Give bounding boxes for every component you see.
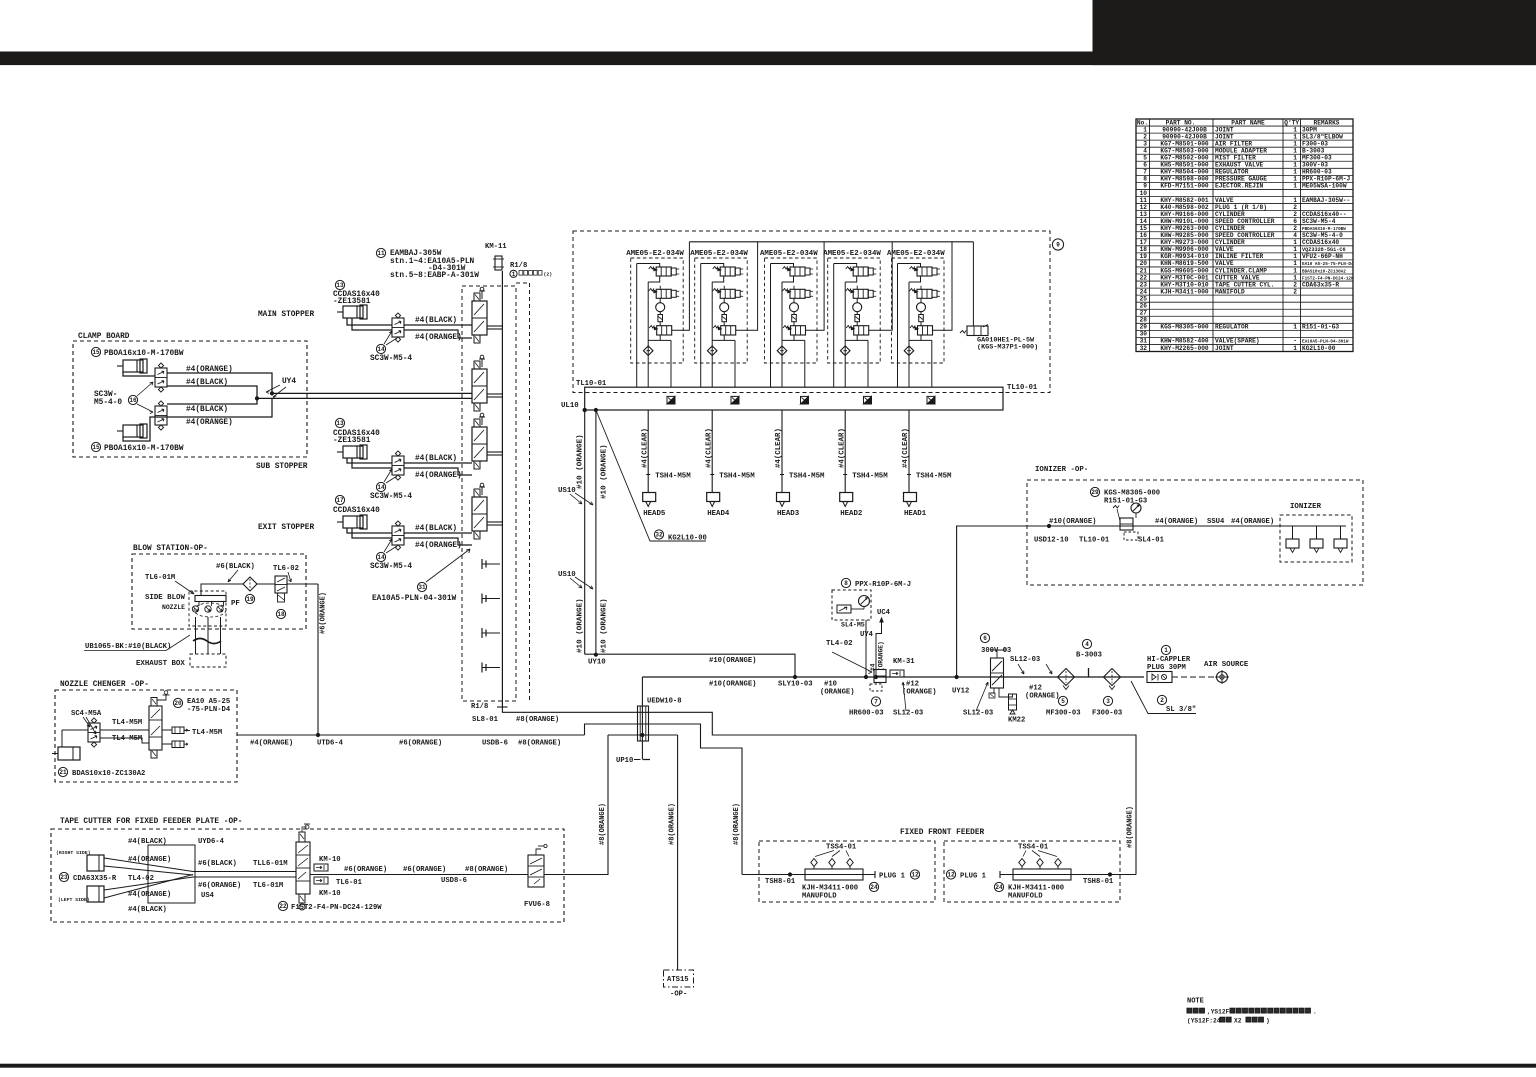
svg-text:4: 4 bbox=[1085, 641, 1089, 648]
svg-text:1: 1 bbox=[1293, 155, 1297, 162]
svg-text:#12: #12 bbox=[906, 681, 919, 689]
stopper valve manifold dashed boxes bbox=[462, 283, 530, 702]
svg-text:TL4-M5M: TL4-M5M bbox=[112, 735, 142, 743]
svg-text:22: 22 bbox=[1140, 274, 1148, 281]
svg-text:VALVE(SPARE): VALVE(SPARE) bbox=[1215, 338, 1260, 345]
svg-text:SSU4: SSU4 bbox=[1207, 518, 1225, 526]
svg-text:SL3/8"ELBOW: SL3/8"ELBOW bbox=[1302, 133, 1343, 140]
svg-text:#4(BLACK): #4(BLACK) bbox=[415, 455, 457, 463]
svg-text:EA10 A5-25: EA10 A5-25 bbox=[187, 698, 230, 706]
svg-text:8: 8 bbox=[844, 580, 848, 587]
svg-text:PF: PF bbox=[231, 600, 240, 608]
label SL4-M5 bbox=[841, 622, 865, 629]
labels #10 ORANGE upper bbox=[577, 434, 609, 499]
svg-text:#10 (ORANGE): #10 (ORANGE) bbox=[601, 444, 609, 499]
ionizer op box bbox=[1027, 466, 1363, 585]
svg-text:15: 15 bbox=[1140, 225, 1148, 232]
svg-text:(ORANGE): (ORANGE) bbox=[1025, 693, 1060, 701]
bottom rule line bbox=[0, 1064, 1536, 1067]
label UL10 bbox=[561, 402, 586, 412]
svg-text:#4(BLACK): #4(BLACK) bbox=[415, 525, 457, 533]
svg-text:10: 10 bbox=[1140, 190, 1148, 197]
svg-text:#6(ORANGE): #6(ORANGE) bbox=[320, 592, 328, 634]
head line HEAD2 bbox=[838, 410, 888, 518]
svg-text:SC3W-M5-4-0: SC3W-M5-4-0 bbox=[1302, 232, 1343, 239]
svg-text:#8(ORANGE): #8(ORANGE) bbox=[1127, 806, 1135, 848]
svg-text:#10(ORANGE): #10(ORANGE) bbox=[709, 681, 756, 689]
svg-text:#4(ORANGE): #4(ORANGE) bbox=[128, 856, 171, 864]
joint 1 HI-CAPPLER bbox=[1147, 645, 1191, 682]
label FIXED FRONT FEEDER bbox=[900, 829, 985, 837]
svg-text:B-3003: B-3003 bbox=[1302, 147, 1325, 154]
labels #10 ORANGE lower bbox=[577, 598, 609, 653]
label 14 SC3W-M5-4 main bbox=[370, 331, 412, 363]
svg-text:12: 12 bbox=[947, 872, 955, 879]
svg-text:29: 29 bbox=[1140, 324, 1148, 331]
svg-text:6: 6 bbox=[1143, 162, 1147, 169]
label 31 EA10A5-PLN bbox=[372, 549, 470, 603]
svg-text:IONIZER: IONIZER bbox=[1290, 503, 1322, 511]
svg-text:TSH4-M5M: TSH4-M5M bbox=[789, 473, 825, 481]
svg-text:7: 7 bbox=[1143, 169, 1147, 176]
svg-text:BLOW STATION-OP-: BLOW STATION-OP- bbox=[133, 545, 208, 553]
svg-text:MIST FILTER: MIST FILTER bbox=[1215, 155, 1256, 162]
svg-text:#4(BLACK): #4(BLACK) bbox=[128, 906, 167, 914]
svg-text:REMARKS: REMARKS bbox=[1314, 120, 1340, 127]
svg-text:1: 1 bbox=[1293, 197, 1297, 204]
svg-text:1: 1 bbox=[1293, 126, 1297, 133]
wire UEDW riser bbox=[641, 677, 643, 759]
svg-text:28: 28 bbox=[1140, 317, 1148, 324]
parts list table bbox=[1136, 119, 1354, 352]
svg-text:HEAD3: HEAD3 bbox=[777, 510, 800, 518]
clamp line labels bbox=[186, 366, 233, 427]
box ATS15 bbox=[664, 970, 694, 999]
svg-text:TL6-02: TL6-02 bbox=[273, 565, 299, 573]
svg-text:CDA63X35-R: CDA63X35-R bbox=[73, 875, 117, 883]
leader #6BLACK bbox=[228, 570, 238, 582]
label US10 lower bbox=[558, 571, 593, 589]
valve 20 nozzle chenger bbox=[149, 691, 170, 758]
svg-text:23: 23 bbox=[60, 874, 68, 881]
main stopper wires bbox=[347, 318, 472, 338]
svg-text:27: 27 bbox=[1140, 310, 1148, 317]
svg-text:IONIZER -OP-: IONIZER -OP- bbox=[1035, 466, 1088, 474]
svg-text:24: 24 bbox=[870, 884, 878, 891]
svg-text:BDAS10x10-ZC130A2: BDAS10x10-ZC130A2 bbox=[1302, 269, 1346, 274]
svg-text:REGULATOR: REGULATOR bbox=[1215, 169, 1249, 176]
wire tape cutter riser bbox=[564, 735, 608, 875]
svg-text:ATS15: ATS15 bbox=[667, 976, 689, 984]
svg-text:K40-M8598-002: K40-M8598-002 bbox=[1160, 204, 1209, 211]
label R1/8 bottom bbox=[471, 703, 488, 711]
wire UY12 riser bbox=[957, 526, 1280, 677]
svg-text:TL4-M5M: TL4-M5M bbox=[192, 729, 222, 737]
svg-text:NOTE: NOTE bbox=[1187, 998, 1204, 1006]
svg-text:EXHAUST VALVE: EXHAUST VALVE bbox=[1215, 162, 1264, 169]
label 14 SC3W-M5-4 exit bbox=[370, 539, 412, 571]
label #8(ORANGE) SL8 bbox=[516, 716, 559, 724]
blow wire bbox=[201, 584, 318, 596]
main stopper labels bbox=[415, 317, 462, 342]
svg-text:SIDE BLOW: SIDE BLOW bbox=[145, 594, 185, 602]
svg-text:#6(ORANGE): #6(ORANGE) bbox=[403, 866, 446, 874]
svg-text:KGS-M8305-000: KGS-M8305-000 bbox=[1104, 490, 1160, 498]
speed controller 14 sub bbox=[392, 451, 404, 480]
svg-text:AME05-E2-034W: AME05-E2-034W bbox=[760, 250, 818, 258]
svg-text:UY4: UY4 bbox=[282, 378, 296, 386]
svg-text:13: 13 bbox=[1140, 211, 1148, 218]
svg-text:US10: US10 bbox=[558, 487, 576, 495]
svg-text:1: 1 bbox=[1293, 147, 1297, 154]
column supply rail bbox=[497, 271, 508, 707]
ionizer feed wire bbox=[1027, 524, 1280, 527]
label SL8-01 bbox=[472, 716, 499, 724]
plug fitting P3 bbox=[482, 628, 500, 638]
svg-text:7: 7 bbox=[874, 699, 878, 706]
svg-text:TSH4-M5M: TSH4-M5M bbox=[852, 473, 888, 481]
svg-text:EAMBAJ-305W--: EAMBAJ-305W-- bbox=[1302, 197, 1350, 204]
svg-text:(LEFT SIDE): (LEFT SIDE) bbox=[58, 897, 90, 903]
svg-text:MANUFOLD: MANUFOLD bbox=[1008, 893, 1043, 901]
label R1/8 top bbox=[510, 262, 552, 278]
svg-text:SL 3/8": SL 3/8" bbox=[1166, 706, 1196, 714]
speed controller SC4 bbox=[88, 718, 100, 747]
leader TL6-01M bbox=[175, 581, 194, 594]
svg-text:15: 15 bbox=[92, 349, 100, 356]
note text bbox=[1187, 998, 1317, 1025]
svg-text:2: 2 bbox=[1293, 211, 1297, 218]
svg-text:F300-03: F300-03 bbox=[1302, 140, 1328, 147]
svg-text:JOINT: JOINT bbox=[1215, 133, 1234, 140]
svg-text:#4(BLACK): #4(BLACK) bbox=[128, 838, 167, 846]
svg-text:SC3W-M5-4: SC3W-M5-4 bbox=[370, 563, 412, 571]
branch segment 735 bbox=[608, 733, 678, 736]
svg-text:HEAD2: HEAD2 bbox=[840, 510, 862, 518]
svg-text:CCDAS16x40: CCDAS16x40 bbox=[333, 507, 380, 515]
svg-text:US10: US10 bbox=[558, 571, 576, 579]
svg-text:SC3W-M5-4: SC3W-M5-4 bbox=[370, 493, 412, 501]
svg-text:31: 31 bbox=[1140, 338, 1148, 345]
label SL12-03 c bbox=[1010, 656, 1040, 674]
svg-text:BDAS10x10-ZC130A2: BDAS10x10-ZC130A2 bbox=[72, 770, 145, 778]
svg-text:300V-03: 300V-03 bbox=[1302, 162, 1328, 169]
svg-text:1: 1 bbox=[1293, 260, 1297, 267]
valve 22 F15T2 bbox=[296, 824, 310, 910]
label MAIN STOPPER bbox=[258, 311, 314, 319]
svg-text:-: - bbox=[1293, 338, 1297, 345]
svg-text:#12: #12 bbox=[1029, 685, 1042, 693]
svg-text:2: 2 bbox=[1293, 288, 1297, 295]
feeder right manifold 24 bbox=[994, 844, 1071, 901]
svg-text:KHW-M8582-400: KHW-M8582-400 bbox=[1160, 338, 1209, 345]
svg-text:VFU2-66P-NH: VFU2-66P-NH bbox=[1302, 253, 1343, 260]
label #10(ORANGE) main bbox=[709, 681, 756, 689]
bar exhaust square 5 bbox=[927, 396, 935, 404]
svg-text:AIR FILTER: AIR FILTER bbox=[1215, 140, 1252, 147]
label UC4 bbox=[877, 609, 891, 617]
svg-text:11: 11 bbox=[377, 250, 385, 257]
svg-text:SC3W-M5-4: SC3W-M5-4 bbox=[1302, 218, 1336, 225]
svg-text:#4(BLACK): #4(BLACK) bbox=[186, 406, 228, 414]
gauge 8 PPX-R10P bbox=[832, 578, 911, 620]
svg-text:.: . bbox=[1313, 1009, 1317, 1016]
wire blow down bbox=[316, 584, 327, 737]
svg-text:EXHAUST BOX: EXHAUST BOX bbox=[136, 660, 185, 668]
svg-text:CYLINDER: CYLINDER bbox=[1215, 239, 1245, 246]
svg-text:FVU6-8: FVU6-8 bbox=[524, 901, 550, 909]
svg-text:INLINE FILTER: INLINE FILTER bbox=[1215, 253, 1264, 260]
valve FVU6-8 bbox=[524, 844, 550, 909]
svg-text:1: 1 bbox=[1293, 133, 1297, 140]
svg-text:(RIGHT SIDE): (RIGHT SIDE) bbox=[56, 850, 91, 856]
svg-text:14: 14 bbox=[377, 484, 385, 491]
svg-text:KM-10: KM-10 bbox=[319, 856, 341, 864]
svg-text:15: 15 bbox=[92, 444, 100, 451]
svg-text:VALVE: VALVE bbox=[1215, 260, 1234, 267]
svg-text:US4: US4 bbox=[201, 892, 215, 900]
svg-text:KG7-M8503-000: KG7-M8503-000 bbox=[1160, 147, 1209, 154]
svg-text:18: 18 bbox=[277, 611, 285, 618]
svg-text:23: 23 bbox=[1140, 281, 1148, 288]
feeder left manifold 24 bbox=[802, 844, 879, 901]
svg-text:TL4-02: TL4-02 bbox=[826, 640, 853, 648]
wire feeder left riser bbox=[733, 803, 741, 845]
svg-text:KHY-M9166-000: KHY-M9166-000 bbox=[1160, 211, 1209, 218]
svg-text:#4(CLEAR): #4(CLEAR) bbox=[838, 428, 846, 468]
svg-text:(2): (2) bbox=[544, 272, 553, 278]
svg-text:19: 19 bbox=[246, 596, 254, 603]
svg-text:R1/8: R1/8 bbox=[471, 703, 488, 711]
svg-text:TSH8-01: TSH8-01 bbox=[765, 878, 796, 886]
svg-text:CLAMP BOARD: CLAMP BOARD bbox=[78, 333, 130, 341]
svg-text:#4(ORANGE): #4(ORANGE) bbox=[415, 334, 462, 342]
fitting KM22 bbox=[1008, 694, 1025, 725]
svg-text:KM-10: KM-10 bbox=[319, 890, 341, 898]
svg-text:CYLINDER.CLAMP: CYLINDER.CLAMP bbox=[1215, 267, 1267, 274]
svg-text:JOINT: JOINT bbox=[1215, 126, 1234, 133]
svg-text:#4(ORANGE): #4(ORANGE) bbox=[1231, 518, 1274, 526]
svg-text:KHY-M2265-000: KHY-M2265-000 bbox=[1160, 345, 1209, 352]
valve group AME05 G4 bbox=[823, 242, 892, 387]
wire gauge to line bbox=[864, 620, 867, 679]
label TL10-01 left bbox=[576, 380, 607, 388]
svg-text:90990-42J00B: 90990-42J00B bbox=[1162, 133, 1207, 140]
svg-text:AME05-E2-034W: AME05-E2-034W bbox=[626, 250, 684, 258]
label SC4-M5A bbox=[71, 710, 102, 734]
svg-text:#6(BLACK): #6(BLACK) bbox=[216, 563, 255, 571]
svg-text:KJH-M3411-000: KJH-M3411-000 bbox=[1160, 288, 1209, 295]
filter 3 F300-03 bbox=[1092, 669, 1122, 718]
svg-text:(YS12F:24: (YS12F:24 bbox=[1187, 1018, 1221, 1025]
svg-text:SC4-M5A: SC4-M5A bbox=[71, 710, 102, 718]
svg-text:EJECTOR.REJIN: EJECTOR.REJIN bbox=[1215, 183, 1264, 190]
blow station box bbox=[132, 545, 306, 629]
label SUB STOPPER bbox=[256, 463, 308, 471]
label 17 CCDAS16x40 exit bbox=[333, 495, 380, 515]
svg-text:5: 5 bbox=[1061, 698, 1065, 705]
svg-text:#4(ORANGE): #4(ORANGE) bbox=[415, 542, 462, 550]
svg-text:TLL6-01M: TLL6-01M bbox=[253, 860, 288, 868]
svg-text:29: 29 bbox=[1091, 489, 1099, 496]
exhaust box bbox=[84, 617, 226, 668]
svg-text:UY10: UY10 bbox=[588, 659, 606, 667]
svg-text:#4(CLEAR): #4(CLEAR) bbox=[641, 428, 649, 468]
svg-text:3: 3 bbox=[1143, 140, 1147, 147]
svg-text:11: 11 bbox=[1140, 197, 1148, 204]
label #12 ORANGE a bbox=[902, 681, 937, 697]
wire SL8-01 down bbox=[502, 707, 1136, 875]
svg-text:SL12-03: SL12-03 bbox=[1010, 656, 1040, 664]
svg-text:#4(CLEAR): #4(CLEAR) bbox=[902, 428, 910, 468]
svg-text:KHY-M3T10-010: KHY-M3T10-010 bbox=[1160, 281, 1209, 288]
label SL12-03 b bbox=[963, 682, 993, 718]
tape labels left bbox=[128, 838, 225, 914]
svg-text:KHY-M8598-000: KHY-M8598-000 bbox=[1160, 176, 1209, 183]
svg-text:12: 12 bbox=[911, 872, 919, 879]
bar exhaust square 2 bbox=[731, 396, 739, 404]
svg-text:PPX-R10P-6M-J: PPX-R10P-6M-J bbox=[855, 581, 911, 589]
label 23 CDA63X35-R bbox=[59, 872, 153, 883]
svg-text:1: 1 bbox=[1293, 239, 1297, 246]
nozzle line labels bbox=[250, 740, 561, 748]
svg-text:#6(ORANGE): #6(ORANGE) bbox=[344, 866, 387, 874]
svg-text:1: 1 bbox=[1293, 267, 1297, 274]
svg-text:#8(ORANGE): #8(ORANGE) bbox=[669, 803, 677, 845]
label UY4 right bbox=[860, 631, 874, 639]
svg-text:FIXED FRONT FEEDER: FIXED FRONT FEEDER bbox=[900, 829, 985, 837]
svg-text:PLUG 30PM: PLUG 30PM bbox=[1147, 664, 1186, 672]
svg-text:#8(ORANGE): #8(ORANGE) bbox=[465, 866, 508, 874]
svg-text:UEDW10-8: UEDW10-8 bbox=[647, 698, 682, 706]
wire US10 right bbox=[594, 408, 597, 656]
svg-text:SPEED CONTROLLER: SPEED CONTROLLER bbox=[1215, 232, 1275, 239]
svg-text:3: 3 bbox=[1106, 698, 1110, 705]
tape pair wires bbox=[193, 872, 296, 878]
svg-text:CCDAS16x40: CCDAS16x40 bbox=[1302, 239, 1339, 246]
tape right labels bbox=[344, 866, 508, 885]
wire US10 left bbox=[583, 408, 586, 654]
svg-text:TSH4-M5M: TSH4-M5M bbox=[916, 473, 952, 481]
main line bbox=[642, 676, 1144, 678]
svg-text:SL4-01: SL4-01 bbox=[1138, 537, 1165, 545]
svg-text:4: 4 bbox=[1293, 232, 1297, 239]
svg-text:1: 1 bbox=[1293, 162, 1297, 169]
svg-text:SL4-M5: SL4-M5 bbox=[841, 622, 865, 629]
valve group AME05 G2 bbox=[690, 242, 757, 387]
svg-text:CYLINDER: CYLINDER bbox=[1215, 211, 1245, 218]
svg-text:TL6-01: TL6-01 bbox=[336, 879, 363, 887]
svg-text:KG2L10-00: KG2L10-00 bbox=[1302, 345, 1336, 352]
svg-text:13: 13 bbox=[336, 282, 344, 289]
svg-text:MF300-03: MF300-03 bbox=[1046, 710, 1081, 718]
svg-text:1: 1 bbox=[512, 271, 516, 278]
air source symbol bbox=[1172, 661, 1249, 684]
rail ticks valves bbox=[487, 326, 502, 525]
tape right wire bbox=[310, 874, 608, 876]
cylinder 21 BDAS10x10 bbox=[52, 747, 145, 778]
svg-text:HI-CAPPLER: HI-CAPPLER bbox=[1147, 656, 1191, 664]
valve group AME05 G5 bbox=[887, 242, 952, 387]
svg-text:R151-01-G3: R151-01-G3 bbox=[1104, 498, 1147, 506]
fittings KM-10 bbox=[314, 856, 363, 898]
cylinder 15 upper PBOA16x10 bbox=[91, 347, 183, 373]
svg-text:HEAD4: HEAD4 bbox=[707, 510, 730, 518]
label #12 ORANGE b bbox=[1025, 664, 1060, 701]
plug fitting P4 bbox=[482, 663, 500, 673]
fitting KM-31 bbox=[890, 658, 915, 677]
svg-text:KG7-M8501-000: KG7-M8501-000 bbox=[1160, 140, 1209, 147]
cylinder 13 main stopper bbox=[337, 305, 367, 319]
AME valve station dashed box bbox=[573, 231, 1050, 393]
svg-text:PBOA16x10-M-170BW: PBOA16x10-M-170BW bbox=[104, 350, 184, 358]
svg-text:SL12-03: SL12-03 bbox=[963, 710, 993, 718]
svg-text:KG7-M8502-000: KG7-M8502-000 bbox=[1160, 155, 1209, 162]
svg-text:KJH-M3411-000: KJH-M3411-000 bbox=[1008, 885, 1064, 893]
label 22 F15T2 bbox=[278, 901, 382, 912]
svg-text:MANIFOLD: MANIFOLD bbox=[1215, 288, 1245, 295]
svg-text:14: 14 bbox=[1140, 218, 1148, 225]
svg-text:TAPE CUTTER CYL.: TAPE CUTTER CYL. bbox=[1215, 281, 1274, 288]
svg-text:UC4: UC4 bbox=[877, 609, 891, 617]
sub stopper labels bbox=[415, 455, 462, 480]
svg-text:KH5-M8501-000: KH5-M8501-000 bbox=[1160, 162, 1209, 169]
valve 18 bbox=[275, 576, 287, 619]
svg-text:SUB STOPPER: SUB STOPPER bbox=[256, 463, 308, 471]
svg-text:#6(ORANGE): #6(ORANGE) bbox=[399, 740, 442, 748]
svg-text:#10(ORANGE): #10(ORANGE) bbox=[1049, 518, 1096, 526]
svg-text:14: 14 bbox=[377, 554, 385, 561]
bar exhaust square 3 bbox=[801, 396, 809, 404]
svg-text:TL6-01M: TL6-01M bbox=[253, 882, 283, 890]
circled 9 bbox=[1052, 239, 1063, 250]
svg-text:2: 2 bbox=[1293, 225, 1297, 232]
svg-text:#10 (ORANGE): #10 (ORANGE) bbox=[601, 598, 609, 653]
svg-text:KHW-M910L-000: KHW-M910L-000 bbox=[1160, 218, 1209, 225]
svg-text:#4(CLEAR): #4(CLEAR) bbox=[775, 428, 783, 468]
AME top supply rail bbox=[689, 241, 973, 243]
svg-text:HEAD1: HEAD1 bbox=[904, 510, 927, 518]
svg-text:21: 21 bbox=[59, 769, 67, 776]
feeder box right bbox=[944, 841, 1120, 902]
label 13 CCDAS16x40 sub bbox=[333, 418, 380, 445]
label UY12 bbox=[952, 675, 969, 695]
svg-text:KFD-M7151-000: KFD-M7151-000 bbox=[1160, 183, 1209, 190]
svg-text:R151-01-G3: R151-01-G3 bbox=[1302, 324, 1339, 331]
svg-text:USD8-6: USD8-6 bbox=[441, 877, 467, 885]
svg-text:-ZE13581: -ZE13581 bbox=[333, 437, 371, 445]
svg-text:(ORANGE): (ORANGE) bbox=[820, 689, 855, 697]
label 2 SL 3/8 bbox=[1131, 681, 1196, 714]
label #10(ORANGE) uy10 bbox=[709, 657, 756, 665]
svg-text:UY4: UY4 bbox=[860, 631, 874, 639]
svg-text:24: 24 bbox=[995, 884, 1003, 891]
svg-text:ME05WSA-100W: ME05WSA-100W bbox=[1302, 183, 1347, 190]
sub stopper wires bbox=[347, 458, 472, 475]
svg-text:25: 25 bbox=[1140, 295, 1148, 302]
svg-text:VALVE: VALVE bbox=[1215, 246, 1234, 253]
adapter 4 B-3003 bbox=[1076, 639, 1102, 677]
svg-text:26: 26 bbox=[1140, 302, 1148, 309]
svg-text:EA10 A5-25-75-PLN-D4: EA10 A5-25-75-PLN-D4 bbox=[1302, 262, 1354, 267]
speed controller 16 upper bbox=[155, 363, 167, 392]
label US10 upper bbox=[558, 487, 593, 505]
svg-text:VALVE: VALVE bbox=[1215, 197, 1234, 204]
svg-text:UP10: UP10 bbox=[616, 757, 633, 765]
svg-text:#4(ORANGE): #4(ORANGE) bbox=[128, 891, 171, 899]
svg-text:TAPE CUTTER FOR FIXED FEEDER P: TAPE CUTTER FOR FIXED FEEDER PLATE -OP- bbox=[60, 818, 242, 826]
svg-text:1: 1 bbox=[1293, 253, 1297, 260]
